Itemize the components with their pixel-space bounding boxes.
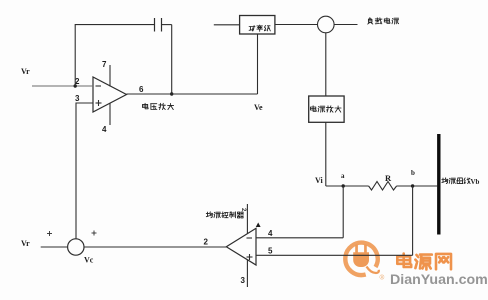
wire stub into 功率级	[214, 24, 240, 26]
svg-text:6: 6	[139, 85, 144, 94]
capacitor C1	[155, 18, 162, 32]
node a	[341, 172, 345, 188]
watermark text 电源网	[397, 254, 451, 270]
svg-text:3: 3	[241, 276, 246, 285]
block 功率级	[240, 16, 275, 35]
svg-text:®: ®	[380, 274, 385, 282]
node b	[411, 169, 415, 188]
wire feedback right vertical	[171, 25, 173, 94]
wire R to node b	[397, 185, 438, 187]
wire 功率级 to CT	[275, 24, 317, 26]
wire node a down	[342, 186, 344, 238]
svg-text:2: 2	[204, 238, 209, 247]
wire feedback left vertical	[74, 25, 76, 86]
wire feedback top right	[162, 24, 172, 26]
plus sign right	[92, 231, 97, 236]
resistor R	[369, 173, 397, 190]
wire U1 pin 3	[76, 102, 93, 104]
junction dot pin2/feedback	[74, 84, 77, 87]
wire CT to load	[334, 24, 357, 26]
svg-text:7: 7	[102, 60, 107, 69]
svg-text:Vi: Vi	[315, 176, 323, 185]
junction dot output/feedback	[170, 92, 173, 95]
svg-text:R: R	[385, 173, 392, 183]
U1 pin 4 stub	[102, 103, 110, 134]
wire pin3 down to summing node	[75, 103, 77, 240]
wire Vr to U1 pin 2	[32, 85, 93, 87]
wire CT down to 电流放大	[325, 33, 327, 96]
label 均流母线Vb	[442, 178, 480, 186]
svg-text:Vc: Vc	[84, 256, 94, 265]
wire node b down	[412, 186, 414, 255]
op-amp U1 (电压放大)	[93, 77, 127, 112]
wire Vi to node a	[326, 185, 369, 187]
wire summing node to U2 pin 2	[84, 246, 226, 248]
share bus bar	[437, 134, 440, 235]
wire 电流放大 down to Vi	[325, 122, 327, 186]
U1 pin 7 stub	[102, 60, 110, 87]
svg-text:b: b	[411, 169, 415, 177]
svg-text:Vr: Vr	[21, 67, 30, 76]
watermark DianYuan logo	[345, 243, 384, 282]
svg-text:Vr: Vr	[21, 239, 30, 248]
wire feedback top left	[75, 24, 154, 26]
svg-text:a: a	[341, 172, 345, 180]
wire to U2 pin 4	[256, 237, 343, 239]
svg-text:4: 4	[102, 125, 107, 134]
svg-text:Ve: Ve	[254, 103, 263, 112]
summing node circle	[68, 239, 84, 255]
label 负载电流	[368, 18, 399, 24]
current sensor CT circle	[318, 16, 335, 33]
label 均流控制器	[206, 208, 246, 218]
svg-text:4: 4	[268, 229, 273, 238]
U2 top pin stub	[246, 204, 248, 234]
svg-text:2: 2	[240, 208, 246, 212]
wire U1 output	[127, 93, 258, 95]
label 电压放大	[143, 103, 174, 109]
wire Ve riser to power stage	[257, 34, 259, 94]
wire to U2 pin 5	[256, 254, 413, 256]
U2 pin 3 stub	[241, 260, 248, 287]
U2 apex marker	[256, 223, 261, 228]
svg-text:5: 5	[268, 247, 273, 256]
wire Vr2 input	[41, 246, 68, 248]
svg-text:DianYuan.com: DianYuan.com	[390, 272, 488, 288]
block 电流放大	[309, 96, 344, 122]
op-amp U2 (均流控制器)	[226, 228, 256, 265]
svg-text:Vb: Vb	[471, 178, 480, 186]
svg-text:3: 3	[75, 94, 80, 103]
plus sign left	[47, 231, 52, 236]
